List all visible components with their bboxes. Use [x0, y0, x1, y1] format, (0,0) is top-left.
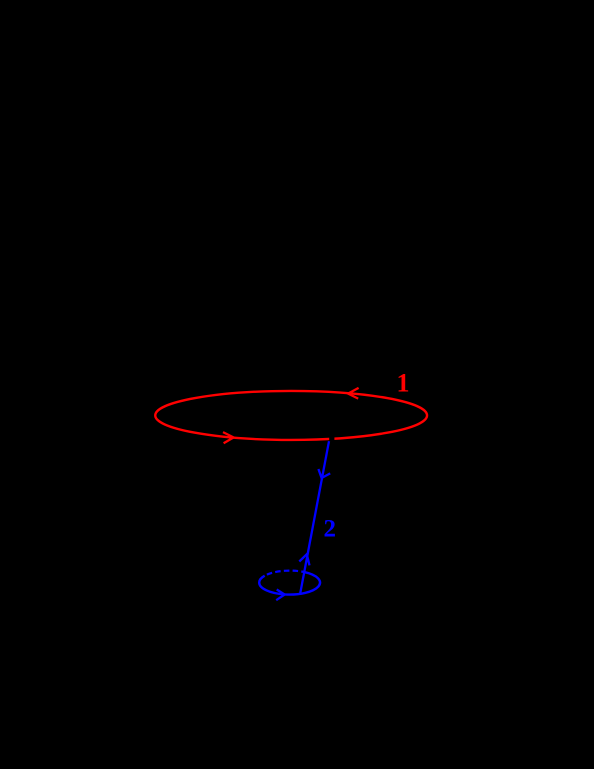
svg-text:2: 2: [324, 516, 337, 543]
arrowhead on axis pointing up: [299, 554, 309, 565]
loop 2: small blue loop, solid front arc: [259, 572, 320, 594]
axis wire from loop 1 down to loop 2: [300, 441, 329, 594]
arrowhead on axis pointing down: [318, 469, 330, 478]
arrowhead on loop 1 top arc (points left): [348, 388, 359, 399]
loop 2: small blue loop, dashed back arc: [265, 571, 305, 576]
gap in loop 1 stroke where axis wire attaches: [329, 436, 334, 442]
arrowhead on loop 1 bottom arc (points right): [223, 432, 234, 443]
arrowhead on loop 2 (points right): [276, 590, 285, 601]
loop 1: large red current loop (ellipse): [155, 391, 427, 440]
svg-text:1: 1: [397, 368, 410, 397]
